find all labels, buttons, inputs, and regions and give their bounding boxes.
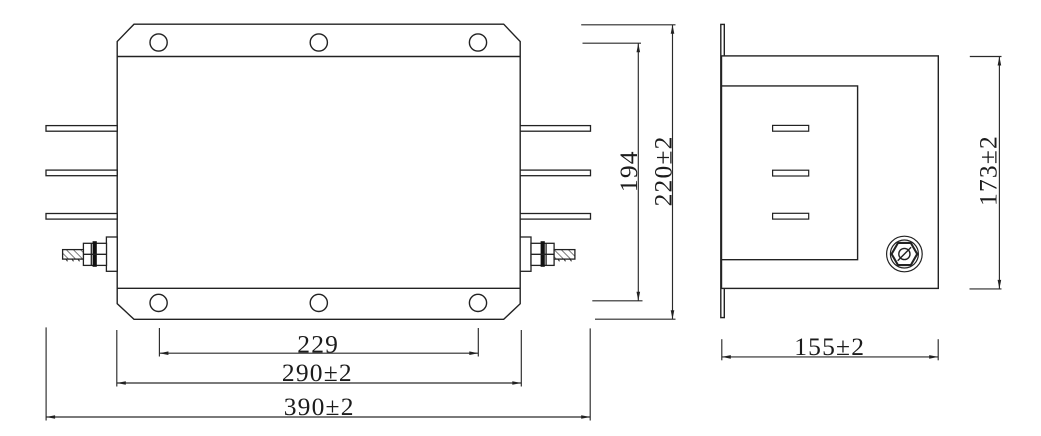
svg-text:194: 194 (614, 150, 643, 192)
svg-text:173±2: 173±2 (974, 135, 1003, 206)
svg-text:229: 229 (297, 330, 339, 359)
svg-text:155±2: 155±2 (794, 332, 865, 361)
svg-text:290±2: 290±2 (282, 358, 353, 387)
svg-text:390±2: 390±2 (284, 392, 355, 421)
svg-text:220±2: 220±2 (648, 135, 677, 206)
